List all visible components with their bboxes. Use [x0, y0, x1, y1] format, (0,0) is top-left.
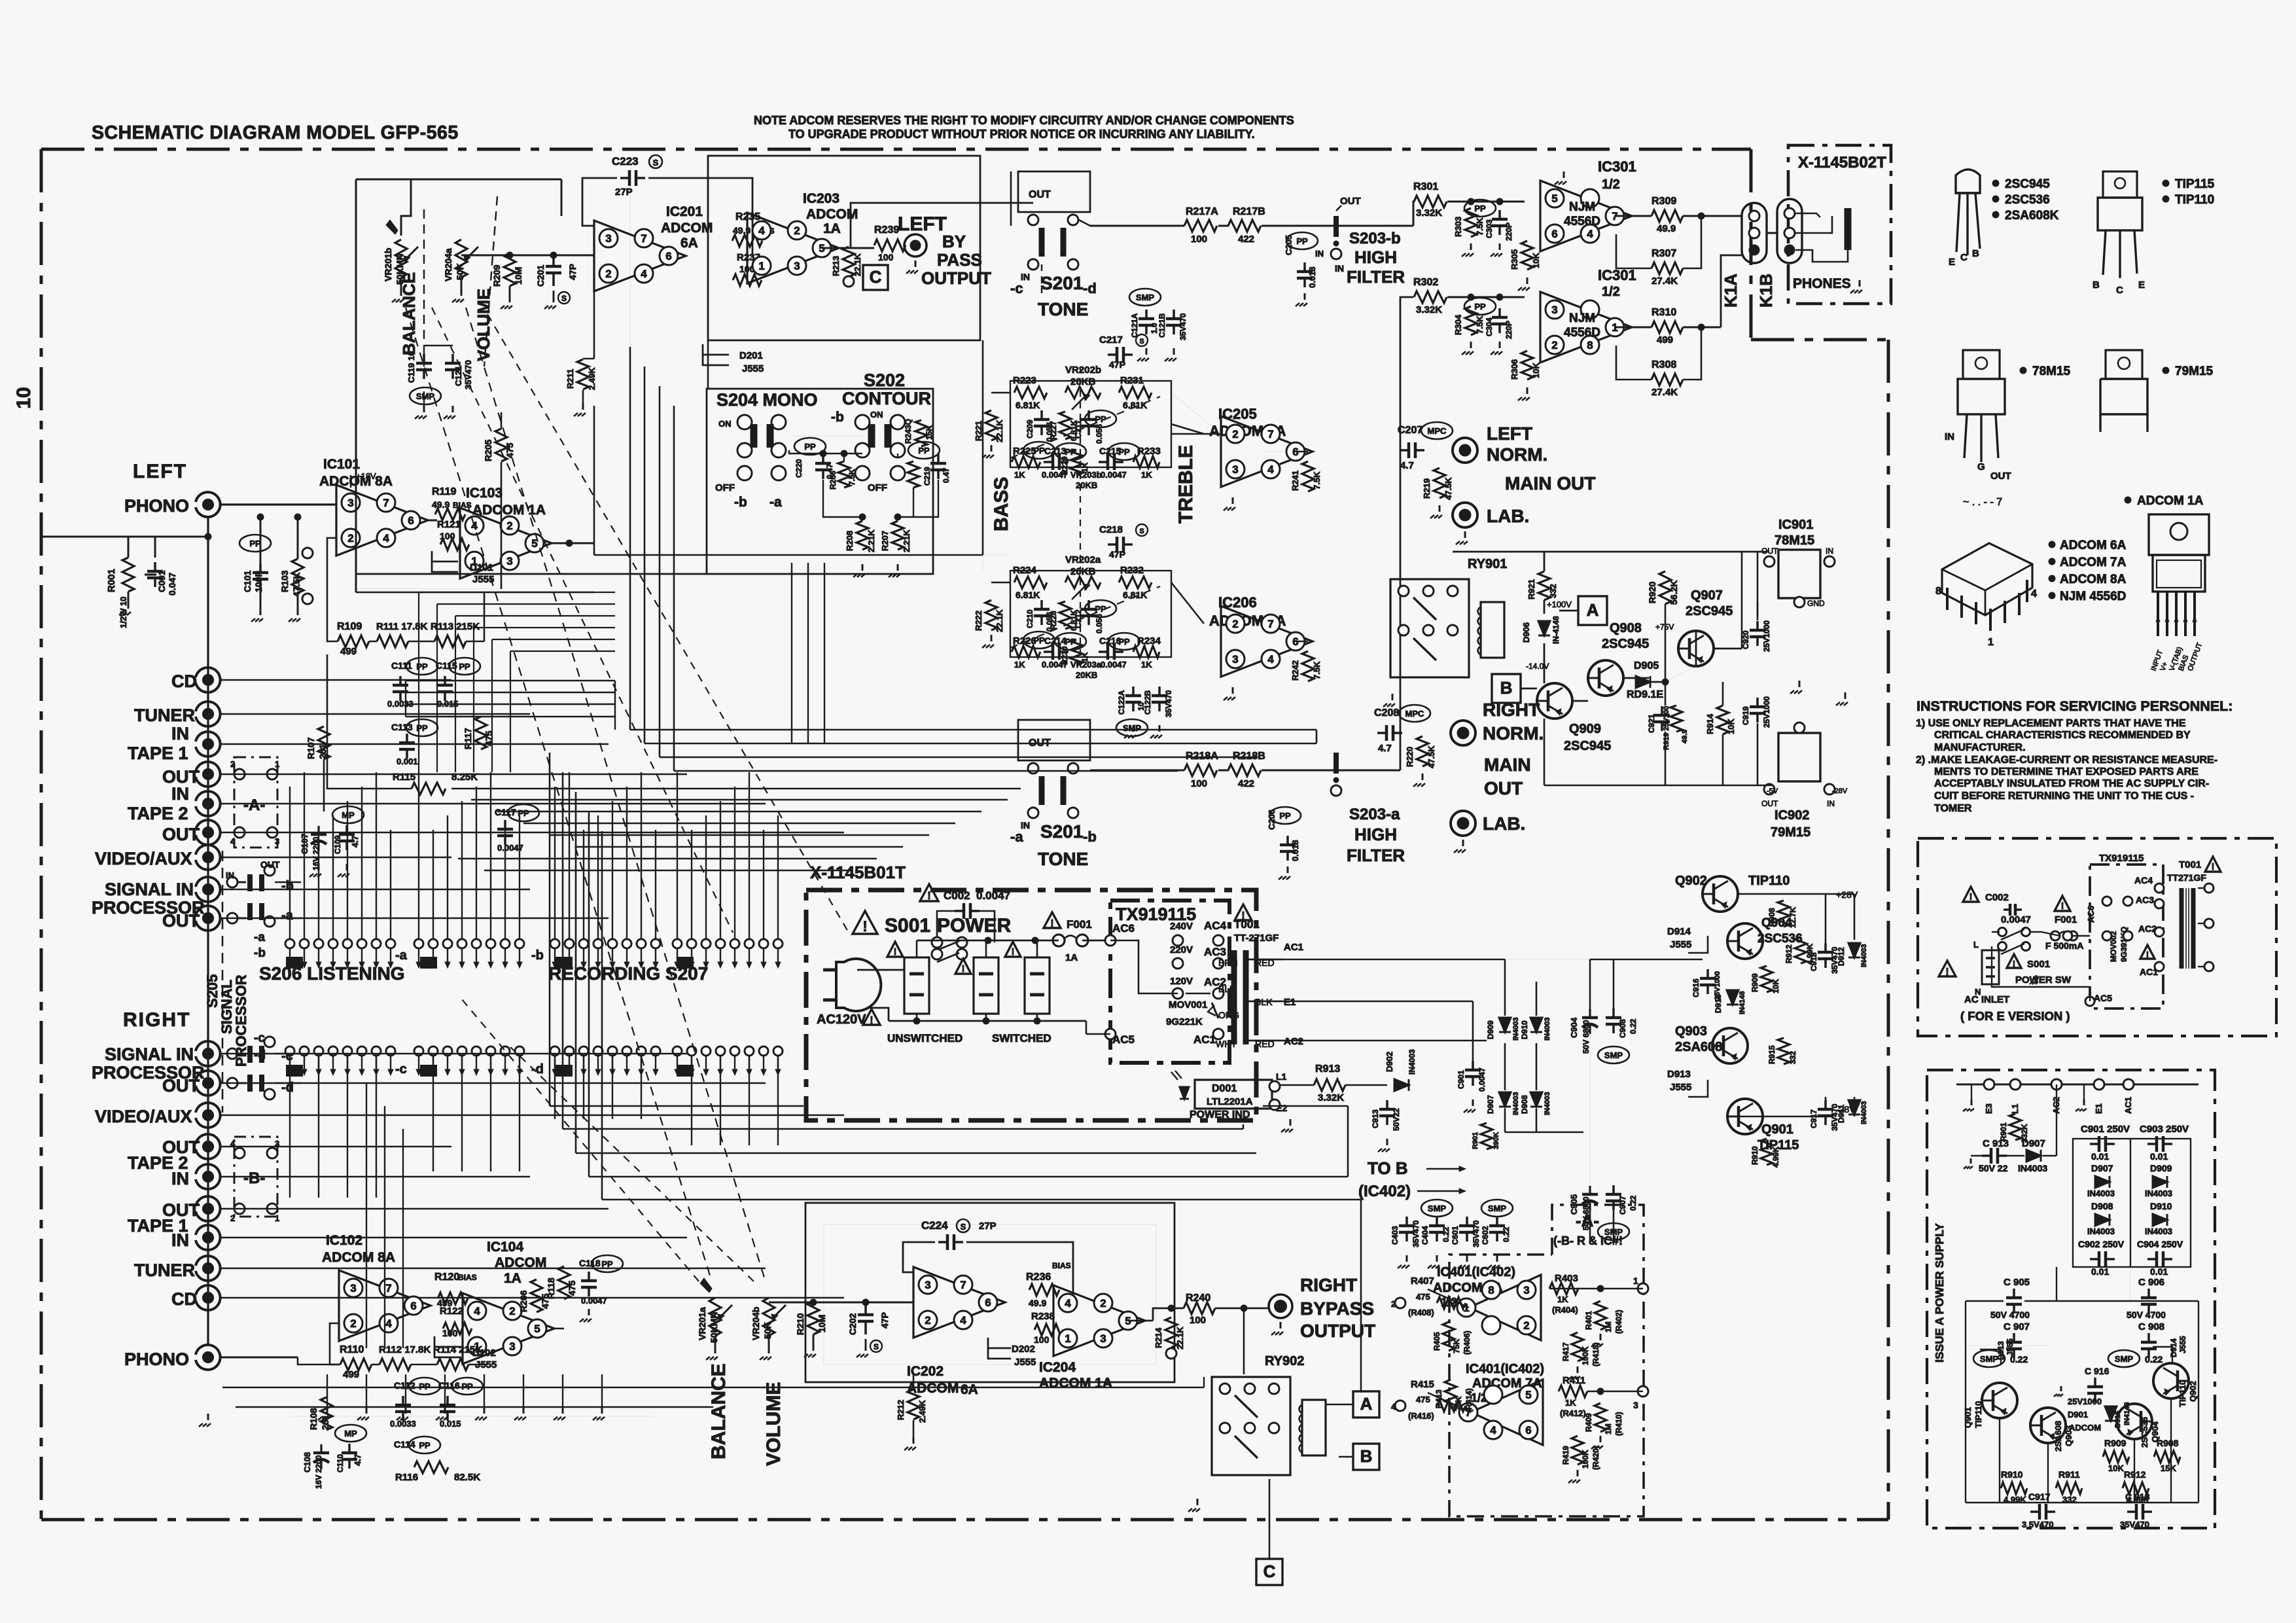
svg-text:R239: R239 [874, 224, 899, 236]
svg-text:R121: R121 [437, 519, 461, 530]
svg-text:2: 2 [605, 268, 611, 280]
capacitor C002 [920, 884, 938, 901]
svg-text:T001: T001 [1234, 918, 1260, 931]
svg-text:0.01: 0.01 [2091, 1266, 2109, 1277]
issue A jfet D913 [1980, 1349, 2001, 1365]
svg-text:50K: 50K [762, 1322, 773, 1339]
svg-text:220P: 220P [1504, 321, 1513, 339]
svg-text:6: 6 [985, 1296, 991, 1309]
svg-text:C121: C121 [453, 366, 463, 386]
svg-text:4: 4 [1587, 228, 1593, 240]
svg-text:50V 4700: 50V 4700 [1990, 1310, 2030, 1320]
svg-text:0.0047: 0.0047 [1042, 660, 1068, 669]
svg-text:IC301: IC301 [1598, 158, 1636, 175]
svg-text:BALANCE: BALANCE [399, 272, 419, 355]
svg-text:R110: R110 [340, 1344, 364, 1355]
svg-text:Q901: Q901 [1963, 1407, 1973, 1428]
svg-text:2: 2 [230, 1213, 235, 1223]
svg-text:C121B: C121B [1157, 313, 1167, 338]
svg-text:IN: IN [1945, 431, 1954, 442]
svg-text:C916: C916 [1691, 978, 1701, 997]
capacitor C917 [1824, 1100, 1827, 1109]
jack LEFT LAB [1453, 503, 1477, 527]
capacitor C601 [1466, 1217, 1468, 1226]
svg-text:-d: -d [254, 1048, 266, 1062]
svg-text:AC5: AC5 [2094, 993, 2112, 1003]
boxed letter A bottom [1353, 1391, 1379, 1418]
svg-text:D914: D914 [1667, 926, 1691, 937]
svg-text:D201: D201 [739, 350, 763, 361]
svg-text:R214: R214 [1154, 1327, 1163, 1348]
svg-text:A: A [1587, 600, 1599, 620]
svg-text:-b: -b [531, 948, 544, 963]
svg-text:6.81K: 6.81K [1016, 590, 1040, 600]
capacitor C212 [1087, 600, 1090, 609]
jack T2OUT [196, 820, 221, 845]
svg-text:D907: D907 [2091, 1163, 2113, 1173]
jack RSIGOUT [196, 1071, 221, 1096]
svg-text:POWER IND: POWER IND [1190, 1109, 1250, 1120]
svg-text:PP: PP [461, 1382, 473, 1391]
resistor R213 [843, 247, 855, 277]
svg-text:VR201a: VR201a [697, 1307, 707, 1340]
svg-text:R910: R910 [2001, 1469, 2023, 1480]
DIP-8 package drawing [1942, 543, 2032, 615]
switch matrix S206/S207 [285, 939, 294, 948]
svg-text:MPC: MPC [1405, 709, 1425, 719]
svg-text:5: 5 [1551, 192, 1557, 205]
svg-text:R217A: R217A [1186, 206, 1218, 217]
capacitor C913 [1386, 1100, 1388, 1109]
tape loop box -B- [234, 1137, 277, 1217]
K1B connector [1777, 199, 1802, 263]
svg-text:4556D: 4556D [1564, 326, 1600, 340]
svg-text:BLU: BLU [1218, 984, 1236, 994]
svg-text:D910: D910 [2150, 1201, 2172, 1211]
svg-text:VR203a: VR203a [1070, 660, 1102, 669]
svg-text:R415: R415 [1411, 1379, 1434, 1390]
svg-text:TUNER: TUNER [134, 1260, 195, 1280]
svg-text:ACCEPTABLY INSULATED FROM T: ACCEPTABLY INSULATED FROM THE AC SUPPLY … [1934, 778, 2209, 789]
svg-text:1: 1 [1633, 1275, 1638, 1286]
svg-text:D908: D908 [2091, 1201, 2113, 1211]
svg-text:D902: D902 [1385, 1052, 1394, 1072]
svg-text:50KMN: 50KMN [709, 1312, 719, 1343]
svg-text:PHONES: PHONES [1793, 276, 1851, 291]
svg-text:-B-: -B- [243, 1169, 265, 1187]
svg-text:R302: R302 [1413, 277, 1438, 288]
bullet list ADCOM6A 7A 8A NJM4556D [2049, 541, 2055, 548]
svg-text:3.32K: 3.32K [1318, 1092, 1344, 1103]
svg-text:7: 7 [1267, 428, 1273, 440]
svg-text:Q909: Q909 [1569, 722, 1601, 736]
svg-text:SIGNAL IN: SIGNAL IN [105, 1044, 194, 1064]
resistor R908 [1778, 901, 1790, 927]
svg-text:R911: R911 [2058, 1469, 2080, 1480]
svg-text:IN4003: IN4003 [2087, 1188, 2115, 1198]
tape loop box -A- [234, 757, 277, 847]
svg-text:R910: R910 [1750, 1146, 1759, 1165]
svg-text:IN-4148: IN-4148 [1551, 616, 1561, 644]
center loop wires [593, 406, 595, 555]
capacitor C121A [1145, 310, 1148, 319]
svg-text:S202: S202 [864, 370, 905, 390]
svg-text:220P: 220P [1504, 223, 1513, 241]
relay RY901 [1390, 579, 1469, 677]
svg-text:R921: R921 [1527, 579, 1536, 599]
E version TX box [2090, 865, 2163, 1008]
svg-text:0.01: 0.01 [2091, 1151, 2109, 1162]
capacitor C219 [937, 454, 940, 463]
svg-text:R419: R419 [1561, 1446, 1570, 1465]
svg-text:12.7K: 12.7K [1788, 907, 1797, 928]
E version C002 [1963, 887, 1979, 902]
svg-text:79M15: 79M15 [2175, 365, 2214, 378]
tone network frame top [1010, 381, 1171, 467]
svg-text:-b: -b [831, 410, 844, 425]
svg-text:S204 MONO: S204 MONO [716, 390, 818, 410]
svg-text:R228: R228 [1049, 611, 1058, 630]
resistor R207 [892, 521, 904, 550]
svg-text:(R410): (R410) [1614, 1412, 1623, 1436]
switch S205 wafer right-top [227, 1048, 238, 1059]
svg-text:C117: C117 [495, 807, 516, 817]
svg-text:3: 3 [509, 1340, 515, 1353]
svg-text:82.5K: 82.5K [454, 1472, 480, 1483]
svg-text:FILTER: FILTER [1347, 267, 1405, 287]
resistor R919 [1670, 705, 1682, 732]
svg-text:S: S [874, 1342, 879, 1351]
svg-text:6: 6 [410, 1300, 416, 1312]
svg-text:D915: D915 [2114, 1411, 2122, 1428]
issue A box [1927, 1070, 2215, 1528]
svg-text:0.0047: 0.0047 [1477, 1067, 1487, 1092]
resistor R909 [1761, 966, 1773, 992]
svg-text:AC3: AC3 [1204, 946, 1226, 958]
svg-text:IC101: IC101 [323, 457, 360, 472]
svg-text:LAB.: LAB. [1487, 506, 1529, 526]
resistor R212 [908, 1389, 919, 1419]
svg-text:R001: R001 [106, 569, 117, 592]
svg-text:2SC536: 2SC536 [2140, 1417, 2149, 1448]
svg-text:K1B: K1B [1756, 274, 1776, 308]
svg-text:!: ! [1969, 892, 1973, 902]
svg-text:C 905: C 905 [2004, 1277, 2030, 1288]
svg-text:NJM 4556D: NJM 4556D [2060, 590, 2126, 603]
svg-text:G: G [1977, 461, 1985, 473]
svg-text:3: 3 [1232, 463, 1238, 476]
issue A R901 [2009, 1114, 2021, 1140]
svg-text:499: 499 [340, 646, 357, 657]
transistor Q903 [1712, 1028, 1748, 1063]
svg-text:IC901: IC901 [1778, 518, 1813, 532]
svg-text:35V470: 35V470 [1178, 313, 1188, 340]
svg-text:4: 4 [1065, 1297, 1071, 1310]
svg-text:6: 6 [1525, 1424, 1531, 1436]
transformer TX919115 box [1110, 901, 1229, 1063]
svg-text:MENTS TO DETERMINE THAT EX: MENTS TO DETERMINE THAT EXPOSED PARTS AR… [1934, 766, 2199, 777]
svg-text:!: ! [1945, 967, 1949, 978]
svg-text:C121A: C121A [1130, 313, 1139, 338]
svg-text:1) USE ONLY REPLACEMENT PA: 1) USE ONLY REPLACEMENT PARTS THAT HAVE … [1916, 718, 2186, 729]
svg-text:IN4003: IN4003 [1512, 1092, 1520, 1115]
svg-text:3.32K: 3.32K [1416, 207, 1442, 219]
svg-text:AC1: AC1 [2123, 1097, 2133, 1114]
resistor R912b [1795, 937, 1807, 963]
svg-text:0.047: 0.047 [167, 573, 177, 596]
svg-text:S201: S201 [1040, 821, 1083, 842]
svg-text:20KB: 20KB [1076, 670, 1097, 680]
svg-text:C917: C917 [2028, 1491, 2051, 1502]
resistor R210 [807, 1302, 819, 1334]
svg-text:S: S [1139, 527, 1144, 535]
svg-text:7: 7 [383, 497, 389, 509]
svg-text:27.4K: 27.4K [1651, 276, 1678, 287]
svg-text:2.49K: 2.49K [587, 367, 597, 390]
resistor R222 [985, 600, 997, 630]
E version AC inlet [1939, 961, 1956, 976]
svg-text:100: 100 [878, 252, 894, 262]
svg-text:Q902: Q902 [1675, 874, 1707, 888]
svg-text:1K: 1K [1141, 660, 1152, 669]
svg-text:35V470: 35V470 [1164, 690, 1173, 717]
S204 block outline [707, 389, 933, 574]
svg-text:D910: D910 [1520, 1020, 1529, 1039]
resistor R118 [558, 1266, 570, 1299]
svg-text:IN: IN [1335, 263, 1344, 274]
svg-text:B: B [1360, 1446, 1373, 1466]
svg-text:3: 3 [506, 555, 512, 567]
svg-text:J555: J555 [2178, 1336, 2187, 1353]
svg-text:R212: R212 [896, 1400, 906, 1420]
svg-text:CRITICAL CHARACTERISTICS R: CRITICAL CHARACTERISTICS RECOMMENDED BY [1934, 730, 2191, 741]
svg-text:C118: C118 [579, 1258, 601, 1268]
svg-text:1: 1 [758, 260, 764, 272]
svg-text:IN: IN [226, 870, 234, 880]
svg-text:NJM: NJM [1569, 200, 1595, 214]
matrix horizontal bus wires [451, 788, 1021, 789]
terminal 3 [1638, 1386, 1648, 1397]
svg-text:2SC945: 2SC945 [2005, 177, 2050, 191]
svg-text:X-1145B01T: X-1145B01T [810, 863, 906, 882]
svg-text:TT-271GF: TT-271GF [1234, 933, 1279, 944]
svg-text:C 916: C 916 [2085, 1366, 2110, 1376]
svg-text:OUT: OUT [1990, 471, 2011, 482]
terminal 1 [1638, 1283, 1648, 1294]
svg-text:IN4003: IN4003 [1860, 944, 1868, 967]
svg-text:S203-b: S203-b [1349, 230, 1401, 247]
svg-text:4: 4 [474, 1305, 480, 1317]
svg-text:9G221K: 9G221K [1166, 1016, 1203, 1027]
svg-text:AC INLET: AC INLET [1964, 994, 2009, 1005]
resistor R405 [1443, 1322, 1455, 1351]
svg-text:C002: C002 [1985, 892, 2009, 903]
wire IC204 to bypass [1128, 1320, 1153, 1322]
jack SIGIN [196, 877, 221, 902]
svg-text:ON: ON [718, 419, 732, 429]
svg-text:D913: D913 [1667, 1069, 1691, 1080]
svg-text:C918: C918 [1809, 952, 1818, 971]
svg-text:S001: S001 [2027, 959, 2050, 970]
balance pointer dashes [432, 308, 733, 933]
secondary wires [1246, 959, 1282, 961]
jack PHONO [196, 492, 221, 517]
svg-text:PP: PP [1065, 637, 1076, 647]
svg-text:R308: R308 [1651, 359, 1676, 370]
svg-text:J555: J555 [1014, 1357, 1036, 1368]
svg-text:4: 4 [383, 532, 389, 544]
op-amp IC202 [913, 1267, 1005, 1338]
svg-text:S: S [561, 294, 567, 303]
svg-text:2SA608: 2SA608 [1675, 1040, 1722, 1054]
svg-text:-A-: -A- [243, 796, 265, 814]
E version box [1918, 838, 2276, 1036]
svg-text:0.01: 0.01 [2150, 1151, 2168, 1162]
svg-text:1A: 1A [504, 1271, 521, 1286]
svg-text:2SC945: 2SC945 [1602, 637, 1649, 651]
capacitor C919 [1756, 698, 1759, 707]
svg-text:C904: C904 [1569, 1017, 1579, 1038]
svg-text:WHT: WHT [1216, 1039, 1237, 1049]
svg-text:BRN: BRN [1218, 957, 1238, 968]
svg-text:R913: R913 [1315, 1063, 1340, 1075]
wire S201 wafers [1079, 220, 1090, 226]
svg-text:SCHEMATIC DIAGRAM MODEL GFP-56: SCHEMATIC DIAGRAM MODEL GFP-565 [92, 122, 459, 143]
bullet list 2SC945 2SC536 2SA608K [1992, 180, 1999, 187]
svg-text:R234: R234 [1137, 635, 1161, 647]
jack RPHONO [196, 1345, 221, 1370]
svg-text:7.5K: 7.5K [1312, 661, 1322, 679]
diode D910 [1530, 1018, 1542, 1032]
svg-text:IC203: IC203 [803, 191, 839, 206]
svg-text:MAIN: MAIN [1484, 755, 1531, 775]
svg-text:C902 250V: C902 250V [2078, 1239, 2125, 1249]
matrix vertical bus wires [289, 787, 291, 939]
svg-text:2: 2 [1100, 1297, 1106, 1310]
svg-text:8.25K: 8.25K [451, 772, 478, 783]
svg-text:VR204a: VR204a [443, 248, 453, 281]
svg-text:TO B: TO B [1368, 1158, 1408, 1178]
svg-text:D001: D001 [1212, 1083, 1237, 1094]
svg-text:L: L [1973, 940, 1979, 950]
potentiometer VR204a [455, 240, 467, 277]
svg-text:22.1K: 22.1K [853, 253, 862, 276]
svg-text:VR202b: VR202b [1065, 365, 1101, 376]
svg-text:47P: 47P [879, 1312, 890, 1329]
svg-text:R303: R303 [1453, 217, 1463, 237]
svg-text:1M: 1M [1604, 1423, 1613, 1435]
svg-text:+100V: +100V [1547, 599, 1572, 609]
svg-text:422: 422 [1238, 234, 1254, 245]
issue A transistors [1982, 1383, 2017, 1418]
svg-text:PHONO: PHONO [124, 1349, 189, 1369]
svg-text:E: E [1949, 257, 1955, 268]
svg-text:C: C [1263, 1561, 1276, 1581]
svg-text:BASS: BASS [991, 477, 1012, 531]
svg-text:6.81K: 6.81K [1123, 400, 1147, 410]
svg-text:6.81K: 6.81K [1123, 590, 1147, 600]
svg-text:(R418): (R418) [1591, 1342, 1600, 1366]
svg-text:R211: R211 [565, 369, 575, 389]
capacitor C202 [864, 1302, 867, 1315]
svg-text:GND: GND [1807, 599, 1825, 608]
svg-text:4: 4 [1267, 653, 1274, 666]
power indicator D001 [1195, 1080, 1272, 1109]
svg-text:IN4003: IN4003 [2087, 1226, 2115, 1236]
AC plug [836, 959, 881, 1011]
svg-text:D907: D907 [1486, 1095, 1495, 1114]
svg-text:ORG: ORG [1218, 1010, 1239, 1020]
svg-text:49.9: 49.9 [1029, 1298, 1046, 1308]
svg-text:C602: C602 [1481, 1226, 1490, 1245]
svg-text:4: 4 [2031, 588, 2037, 599]
svg-text:R111 17.8K: R111 17.8K [376, 621, 428, 632]
issue A top rail [1956, 1084, 2199, 1086]
svg-text:7.5K: 7.5K [1475, 217, 1485, 236]
jack VAUX [196, 845, 221, 870]
svg-text:1A: 1A [823, 221, 841, 236]
svg-text:R120: R120 [434, 1272, 459, 1283]
svg-text:R207: R207 [880, 531, 890, 551]
resistor R230 [1070, 639, 1082, 664]
svg-text:TAPE 1: TAPE 1 [128, 743, 188, 763]
svg-text:R266: R266 [828, 471, 838, 490]
potentiometer VR201b [395, 240, 407, 277]
svg-text:J555: J555 [1670, 939, 1691, 950]
svg-text:3: 3 [347, 497, 353, 509]
svg-text:IC401(IC402): IC401(IC402) [1466, 1362, 1544, 1376]
svg-text:FILTER: FILTER [1347, 846, 1405, 865]
svg-text:0.0047: 0.0047 [1101, 660, 1127, 669]
svg-text:10: 10 [13, 387, 35, 408]
jack T1IN [196, 732, 221, 757]
svg-text:R222: R222 [974, 611, 983, 631]
svg-text:AC6: AC6 [2086, 906, 2096, 923]
capacitor C122B [1158, 687, 1161, 696]
svg-text:R122: R122 [440, 1306, 463, 1317]
svg-text:SMP: SMP [416, 391, 435, 401]
svg-text:OUT: OUT [162, 825, 200, 844]
svg-text:2: 2 [1232, 618, 1238, 630]
svg-text:(R404): (R404) [1552, 1305, 1578, 1315]
svg-text:2SC945: 2SC945 [1564, 739, 1611, 753]
svg-text:6A: 6A [961, 1382, 978, 1397]
svg-text:C304: C304 [1485, 317, 1494, 336]
svg-text:5: 5 [1525, 1389, 1531, 1401]
svg-text:MP: MP [342, 810, 355, 820]
TO-92 package drawing [1956, 169, 1980, 193]
svg-text:ADCOM 8A: ADCOM 8A [2060, 573, 2127, 586]
svg-text:4.7: 4.7 [1378, 743, 1392, 754]
resistor R306 [1521, 351, 1533, 380]
svg-text:35V470: 35V470 [2120, 1520, 2149, 1529]
svg-text:0.056: 0.056 [1095, 614, 1104, 633]
svg-text:VR203b: VR203b [1070, 470, 1102, 480]
svg-text:OUT: OUT [1484, 778, 1523, 798]
svg-text:R403: R403 [1555, 1273, 1578, 1284]
svg-text:3: 3 [1523, 1284, 1529, 1296]
E version S001 switch [1998, 928, 2007, 936]
svg-text:C107: C107 [300, 834, 309, 854]
svg-text:R219: R219 [1422, 478, 1432, 499]
capacitor C121B [1173, 310, 1175, 319]
svg-text:2.49K: 2.49K [917, 1400, 927, 1423]
svg-text:C101: C101 [242, 570, 253, 592]
svg-text:2SC536: 2SC536 [2005, 193, 2050, 207]
svg-text:SMP: SMP [1604, 1050, 1623, 1060]
svg-text:E: E [2138, 279, 2145, 291]
svg-text:475: 475 [540, 1293, 550, 1309]
